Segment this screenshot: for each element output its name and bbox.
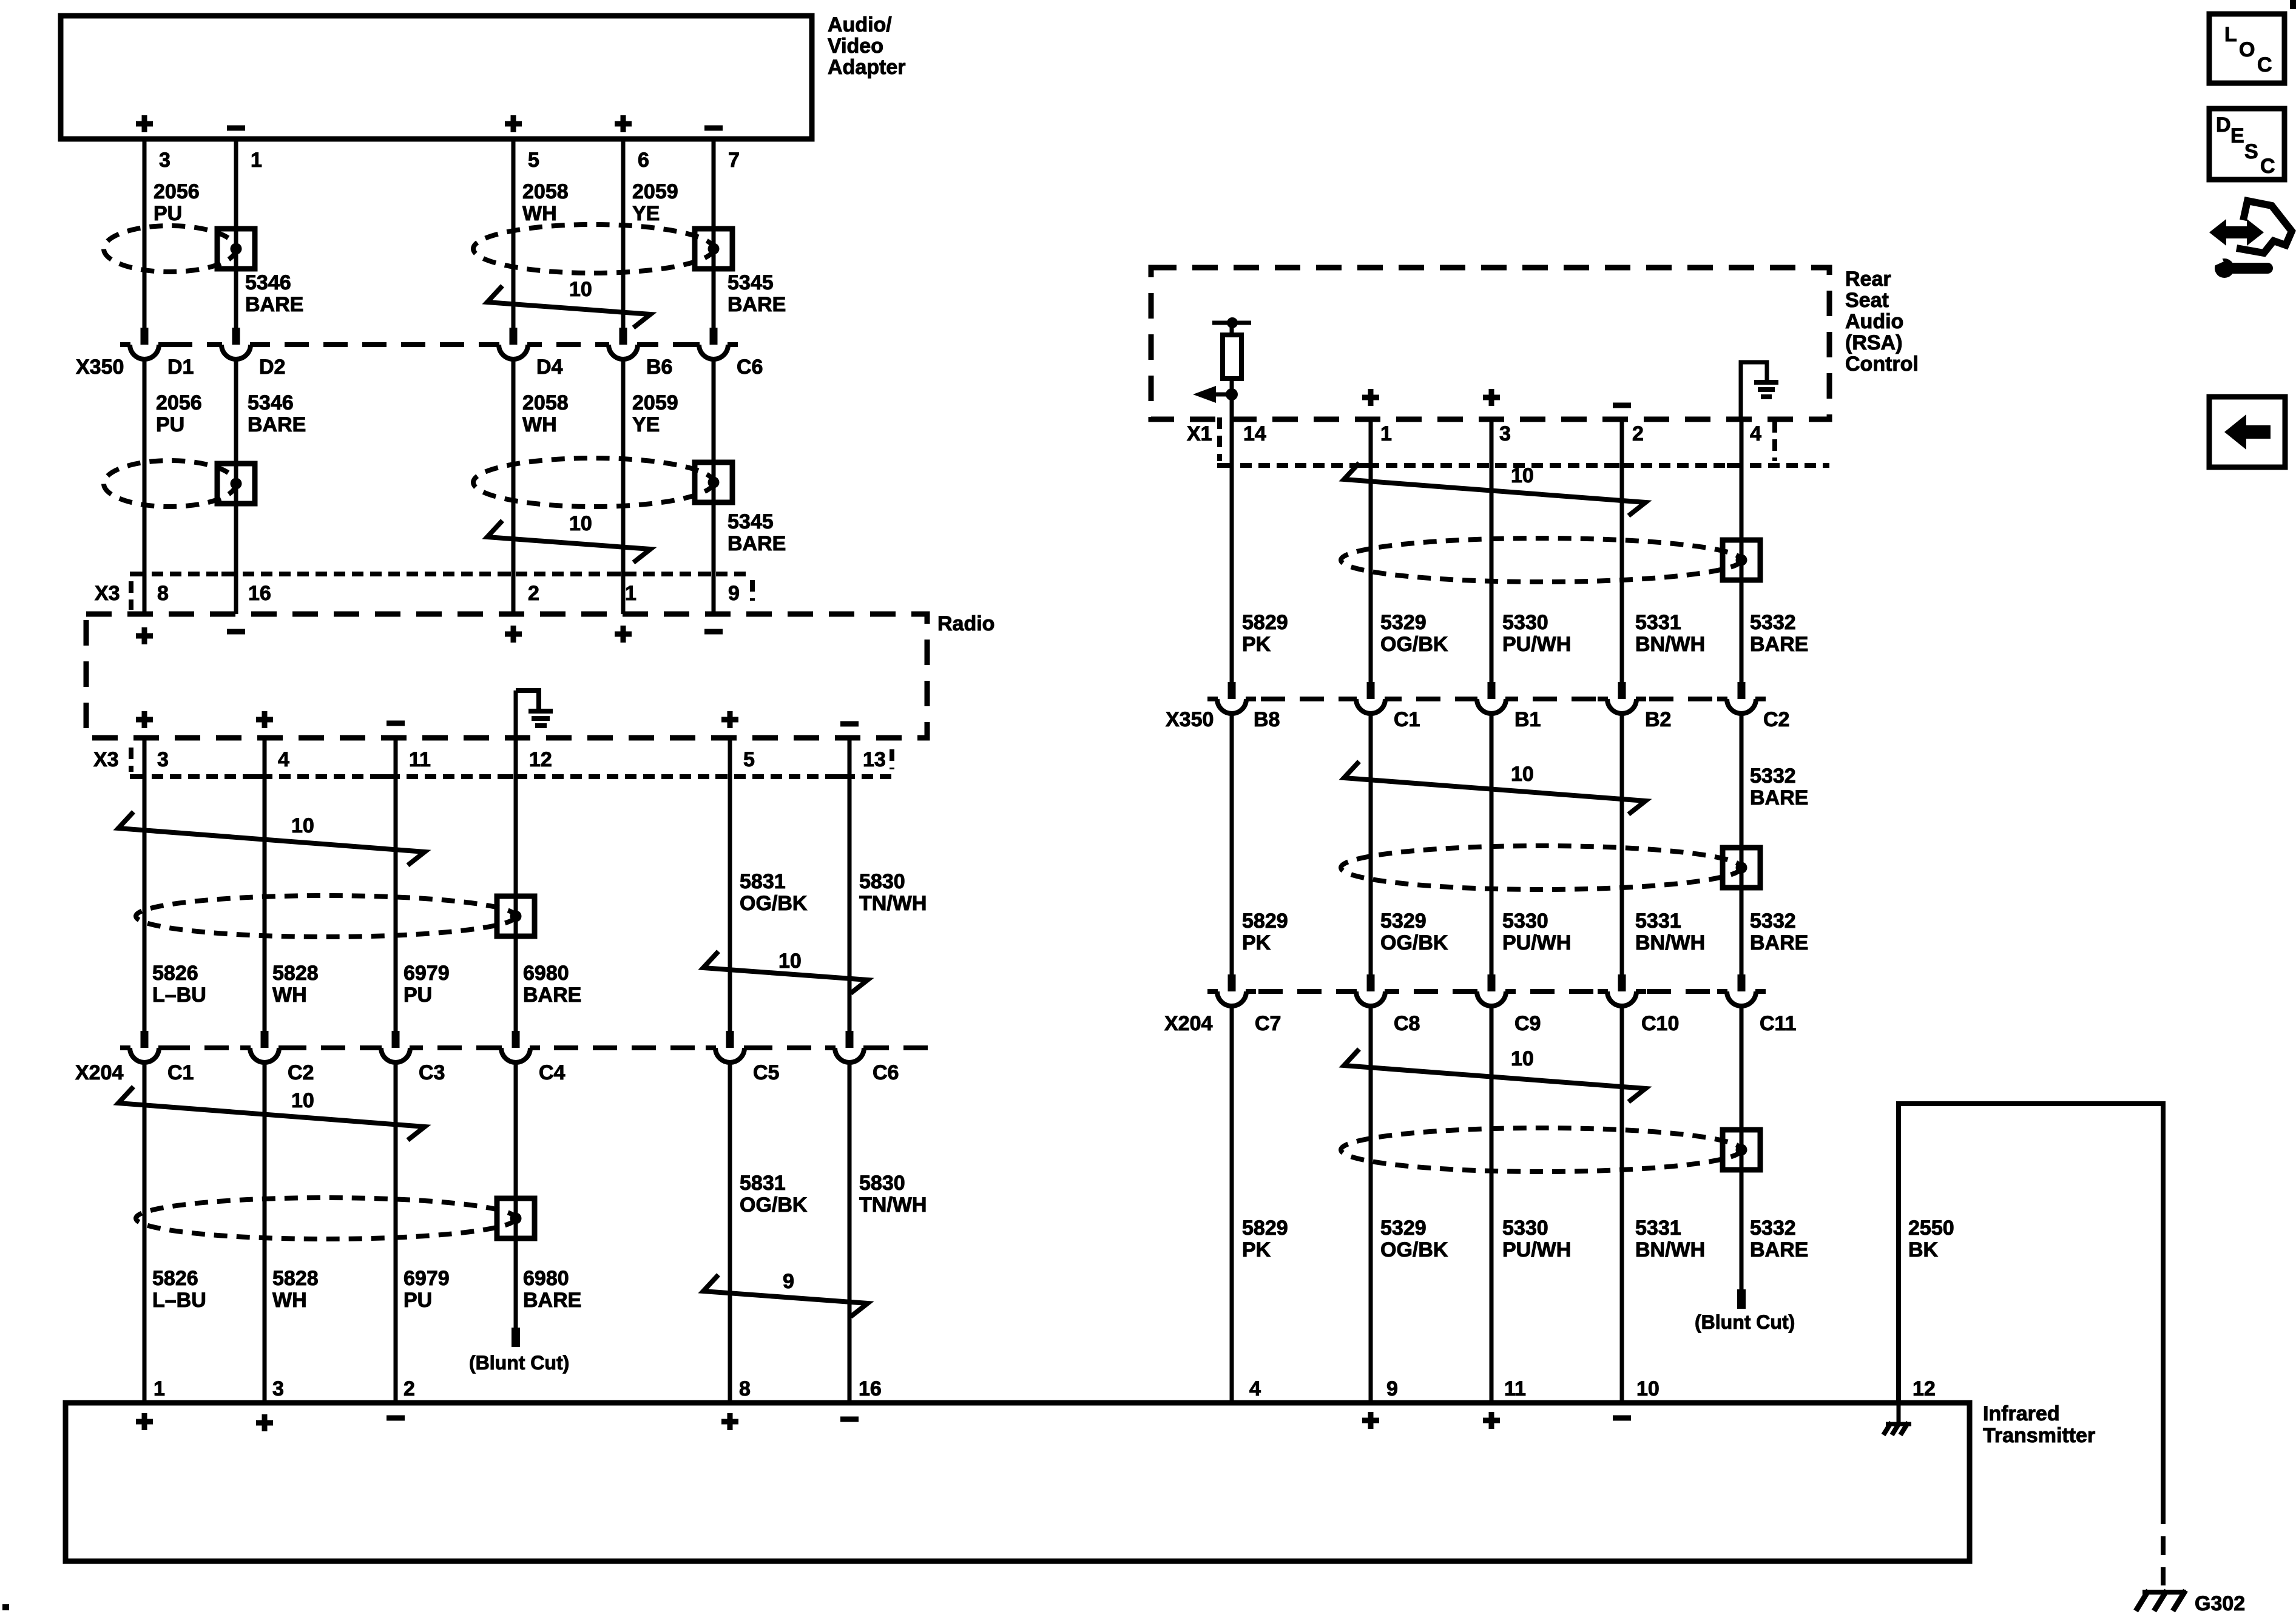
svg-text:2: 2 — [528, 582, 539, 605]
X350 terminal at x=2458 — [1477, 695, 1505, 703]
svg-text:C9: C9 — [1514, 1012, 1541, 1035]
svg-text:(Blunt Cut): (Blunt Cut) — [469, 1352, 569, 1374]
svg-text:5346: 5346 — [248, 391, 294, 414]
svg-text:1: 1 — [251, 149, 262, 172]
svg-text:BARE: BARE — [1750, 786, 1808, 809]
svg-text:2: 2 — [1632, 422, 1644, 445]
wire radio to X204 (x=1400) — [848, 738, 852, 1031]
svg-text:C1: C1 — [167, 1061, 194, 1084]
svg-text:5329: 5329 — [1380, 910, 1427, 933]
svg-text:Control: Control — [1845, 353, 1919, 376]
shield drain ellipse (2058/2059/5345 set) — [473, 224, 714, 273]
wire X204 to IR transmitter (x=850) — [514, 1062, 518, 1328]
svg-text:2059: 2059 — [632, 391, 678, 414]
svg-text:BARE: BARE — [728, 293, 786, 316]
wire radio to X204 (x=238) — [143, 738, 147, 1031]
twisted pair marker 10 row 2 — [1344, 761, 1646, 814]
svg-text:O: O — [2239, 38, 2255, 61]
svg-text:X350: X350 — [76, 356, 124, 379]
connector X350 row (D1 D2 D4 B6 C6) dashed line — [129, 342, 729, 347]
svg-text:14: 14 — [1243, 422, 1266, 445]
svg-text:C2: C2 — [1763, 708, 1789, 731]
svg-text:13: 13 — [863, 748, 886, 771]
shield drain ellipse row D — [136, 1198, 516, 1239]
svg-text:OG/BK: OG/BK — [740, 1193, 808, 1217]
svg-text:OG/BK: OG/BK — [740, 892, 808, 915]
svg-text:BARE: BARE — [245, 293, 303, 316]
wire X350 to X204 (x=2030) — [1230, 714, 1234, 974]
svg-text:C: C — [2257, 53, 2272, 76]
svg-text:3: 3 — [1499, 422, 1511, 445]
svg-text:5829: 5829 — [1242, 910, 1288, 933]
svg-text:BK: BK — [1908, 1238, 1939, 1261]
svg-text:PK: PK — [1242, 1238, 1271, 1261]
wire X204 to IR (x=2458) — [1490, 1006, 1494, 1403]
svg-text:5332: 5332 — [1750, 765, 1796, 788]
X204 terminal at x=850 — [502, 1044, 530, 1052]
X204 terminal at x=1400 — [836, 1044, 863, 1052]
svg-text:X3: X3 — [95, 582, 120, 605]
X204 terminal at x=238 — [130, 1044, 158, 1052]
svg-text:5330: 5330 — [1502, 1217, 1548, 1240]
connector X3 row 1 dashed line — [133, 572, 752, 576]
wire from AVA pin to X350 (x=846) — [512, 139, 516, 328]
component box: Audio/Video Adapter — [61, 16, 812, 139]
svg-text:5331: 5331 — [1635, 611, 1681, 634]
svg-text:7: 7 — [728, 149, 740, 172]
svg-text:B8: B8 — [1254, 708, 1280, 731]
svg-text:4: 4 — [278, 748, 289, 771]
svg-text:10: 10 — [569, 512, 592, 535]
DESC legend box — [2209, 109, 2284, 180]
svg-text:16: 16 — [248, 582, 271, 605]
svg-text:E: E — [2230, 124, 2244, 147]
svg-text:C7: C7 — [1255, 1012, 1281, 1035]
svg-text:S: S — [2244, 140, 2258, 163]
svg-text:5828: 5828 — [272, 1267, 319, 1290]
twisted pair marker 9 (5831/5830) — [703, 1275, 868, 1317]
twisted pair marker 10 (2058/2059) — [487, 286, 650, 328]
svg-text:TN/WH: TN/WH — [859, 1193, 927, 1217]
shield termination box on 6980 BARE — [497, 896, 535, 936]
svg-text:C4: C4 — [539, 1061, 566, 1084]
svg-text:5346: 5346 — [245, 271, 291, 294]
svg-text:3: 3 — [157, 748, 169, 771]
svg-text:Transmitter: Transmitter — [1983, 1424, 2095, 1447]
radio output polarity marks — [136, 711, 153, 728]
svg-text:L–BU: L–BU — [152, 1289, 206, 1312]
svg-text:12: 12 — [1913, 1377, 1936, 1400]
svg-text:5332: 5332 — [1750, 910, 1796, 933]
svg-text:C8: C8 — [1394, 1012, 1420, 1035]
svg-text:BARE: BARE — [523, 1289, 581, 1312]
wire X350 to X204 (x=2870) — [1740, 714, 1744, 974]
wire X204 to IR transmitter (x=1203) — [728, 1062, 732, 1403]
ground G302 — [2142, 1590, 2186, 1595]
AVA polarity marks — [136, 115, 153, 132]
svg-text:WH: WH — [522, 202, 557, 225]
svg-text:OG/BK: OG/BK — [1380, 1238, 1448, 1261]
svg-text:10: 10 — [1511, 464, 1534, 487]
svg-text:9: 9 — [728, 582, 740, 605]
connector X204 row (C1..C6) dashed line — [127, 1045, 937, 1050]
svg-text:6980: 6980 — [523, 962, 569, 985]
svg-text:Infrared: Infrared — [1983, 1402, 2060, 1425]
svg-text:D2: D2 — [259, 356, 285, 379]
svg-text:2: 2 — [403, 1377, 415, 1400]
wire X204 to IR (x=2259) — [1369, 1006, 1373, 1403]
shield drain ellipse 5332 row2 — [1341, 846, 1741, 890]
X204 terminal at x=2458 — [1477, 988, 1505, 995]
RSA polarity marks — [1362, 389, 1379, 406]
svg-text:5: 5 — [528, 149, 539, 172]
svg-text:BARE: BARE — [523, 984, 581, 1007]
svg-text:2058: 2058 — [522, 391, 569, 414]
resistor (RSA volume pot) — [1212, 321, 1251, 325]
wire X350 to radio X3 (x=1176) — [712, 359, 716, 614]
svg-text:C3: C3 — [419, 1061, 445, 1084]
svg-text:6979: 6979 — [403, 962, 450, 985]
svg-text:11: 11 — [409, 748, 431, 771]
svg-text:D4: D4 — [536, 356, 563, 379]
shield termination box on 5346 BARE — [217, 229, 255, 269]
svg-text:C6: C6 — [873, 1061, 899, 1084]
svg-text:4: 4 — [1750, 422, 1761, 445]
wiper arrow — [1226, 388, 1238, 400]
svg-text:X1: X1 — [1187, 422, 1212, 445]
svg-text:OG/BK: OG/BK — [1380, 633, 1448, 656]
X350 terminal at x=846 — [499, 341, 527, 348]
wire radio to X204 (x=652) — [394, 738, 398, 1031]
wire from AVA pin to X350 (x=389) — [234, 139, 238, 328]
connector X350 row (B8 C1 B1 B2 C2) dashed line — [1222, 697, 1760, 701]
svg-text:2056: 2056 — [154, 180, 200, 203]
svg-text:10: 10 — [291, 814, 314, 837]
wire from AVA pin to X350 (x=238) — [143, 139, 147, 328]
X204 terminal at x=1203 — [716, 1044, 744, 1052]
wire RSA to X350 (x=2030) — [1230, 394, 1234, 682]
svg-text:OG/BK: OG/BK — [1380, 931, 1448, 954]
shield termination box on 5346 — [217, 464, 255, 504]
svg-text:10: 10 — [1511, 1047, 1534, 1070]
svg-text:9: 9 — [1386, 1377, 1398, 1400]
svg-text:BARE: BARE — [248, 413, 306, 436]
svg-text:BN/WH: BN/WH — [1635, 633, 1705, 656]
twisted pair marker 10 row D — [118, 1087, 425, 1140]
X350 terminal at x=238 — [130, 341, 158, 348]
svg-text:5826: 5826 — [152, 962, 198, 985]
svg-text:PU/WH: PU/WH — [1502, 931, 1571, 954]
svg-text:G302: G302 — [2195, 1592, 2245, 1615]
svg-text:PK: PK — [1242, 633, 1271, 656]
X350 terminal at x=389 — [222, 341, 250, 348]
svg-text:PU/WH: PU/WH — [1502, 633, 1571, 656]
svg-text:6979: 6979 — [403, 1267, 450, 1290]
svg-text:5331: 5331 — [1635, 910, 1681, 933]
IR polarity marks — [136, 1413, 153, 1430]
wire RSA to X350 (x=2870) — [1740, 419, 1744, 682]
wire RSA to X350 (x=2673) — [1620, 419, 1624, 682]
svg-text:5831: 5831 — [740, 870, 786, 893]
svg-text:PU/WH: PU/WH — [1502, 1238, 1571, 1261]
X350 terminal at x=1027 — [609, 341, 637, 348]
svg-text:5329: 5329 — [1380, 611, 1427, 634]
svg-text:WH: WH — [272, 1289, 307, 1312]
svg-text:YE: YE — [632, 202, 660, 225]
shield termination box on 5332 BARE — [1723, 540, 1760, 580]
RSA internal ground (pin 4) — [1741, 362, 1767, 419]
shield drain ellipse 5332 — [1341, 538, 1741, 582]
svg-text:B1: B1 — [1514, 708, 1541, 731]
svg-text:WH: WH — [522, 413, 557, 436]
svg-text:9: 9 — [783, 1270, 794, 1293]
svg-text:X204: X204 — [75, 1061, 123, 1084]
svg-text:1: 1 — [1380, 422, 1392, 445]
shield drain ellipse 5332 row3 — [1341, 1128, 1741, 1172]
X204 terminal at x=2673 — [1608, 988, 1636, 995]
svg-text:C2: C2 — [288, 1061, 314, 1084]
svg-text:C1: C1 — [1394, 708, 1420, 731]
wire RSA to X350 (x=2259) — [1369, 419, 1373, 682]
wire 2550 BK to G302 — [1899, 1104, 2163, 1505]
svg-text:C10: C10 — [1641, 1012, 1679, 1035]
svg-text:BN/WH: BN/WH — [1635, 931, 1705, 954]
X204 terminal at x=2030 — [1218, 988, 1246, 995]
wire radio to X204 (x=436) — [263, 738, 267, 1031]
X204 terminal at x=652 — [382, 1044, 410, 1052]
wire X204 to IR transmitter (x=1400) — [848, 1062, 852, 1403]
wire radio to X204 (x=850) — [514, 690, 518, 1031]
LOC legend box — [2209, 14, 2284, 83]
svg-text:Radio: Radio — [937, 612, 994, 635]
svg-text:BN/WH: BN/WH — [1635, 1238, 1705, 1261]
svg-text:5826: 5826 — [152, 1267, 198, 1290]
svg-text:Seat: Seat — [1845, 289, 1889, 312]
shield termination box on 5332 BARE — [1723, 1130, 1760, 1170]
svg-text:2058: 2058 — [522, 180, 569, 203]
svg-text:PU: PU — [403, 1289, 432, 1312]
svg-text:4: 4 — [1249, 1377, 1261, 1400]
blunt cut stub 6980 — [512, 1328, 520, 1347]
svg-text:X204: X204 — [1164, 1012, 1212, 1035]
svg-text:5345: 5345 — [728, 510, 774, 533]
svg-text:6: 6 — [638, 149, 649, 172]
svg-text:16: 16 — [859, 1377, 882, 1400]
svg-text:8: 8 — [157, 582, 169, 605]
svg-text:WH: WH — [272, 984, 307, 1007]
X204 terminal at x=2870 — [1727, 988, 1755, 995]
svg-text:8: 8 — [739, 1377, 751, 1400]
wire X204 to IR transmitter (x=652) — [394, 1062, 398, 1403]
svg-text:C11: C11 — [1760, 1012, 1797, 1035]
svg-text:10: 10 — [291, 1089, 314, 1112]
svg-text:C: C — [2260, 155, 2275, 178]
wire X204 to IR (x=2030) — [1230, 1006, 1234, 1403]
svg-text:5831: 5831 — [740, 1172, 786, 1195]
radio input polarity marks — [136, 627, 153, 644]
svg-text:PU: PU — [156, 413, 184, 436]
twisted pair marker 10 (5826/5828/6979) — [118, 812, 425, 865]
svg-text:2550: 2550 — [1908, 1217, 1954, 1240]
svg-text:(RSA): (RSA) — [1845, 331, 1902, 354]
shield drain ellipse row B left — [104, 461, 236, 507]
wire RSA to X350 (x=2458) — [1490, 419, 1494, 682]
svg-text:Adapter: Adapter — [828, 56, 905, 79]
IR internal ground at pin 12 — [1897, 1403, 1901, 1423]
svg-text:C5: C5 — [753, 1061, 779, 1084]
X204 terminal at x=436 — [251, 1044, 279, 1052]
wire X204 to IR transmitter (x=436) — [263, 1062, 267, 1403]
svg-text:L–BU: L–BU — [152, 984, 206, 1007]
svg-text:5332: 5332 — [1750, 1217, 1796, 1240]
svg-text:1: 1 — [625, 582, 636, 605]
connector X204 row (C7..C11) dashed line — [1220, 989, 1760, 994]
wire from AVA pin to X350 (x=1027) — [621, 139, 626, 328]
svg-text:5330: 5330 — [1502, 611, 1548, 634]
svg-text:10: 10 — [778, 950, 802, 973]
svg-text:5330: 5330 — [1502, 910, 1548, 933]
svg-text:(Blunt Cut): (Blunt Cut) — [1695, 1311, 1795, 1333]
svg-text:BARE: BARE — [728, 532, 786, 555]
wire X350 to X204 (x=2458) — [1490, 714, 1494, 974]
svg-text:PU: PU — [403, 984, 432, 1007]
shield termination box on 5332 BARE — [1723, 848, 1760, 888]
svg-text:5329: 5329 — [1380, 1217, 1427, 1240]
svg-text:BARE: BARE — [1750, 633, 1808, 656]
radio internal ground at pin 12 — [516, 690, 539, 709]
shield termination box on 5345 BARE — [695, 229, 732, 269]
svg-text:11: 11 — [1504, 1377, 1526, 1400]
X350 terminal at x=2259 — [1357, 695, 1385, 703]
component box: Rear Seat Audio (RSA) Control (dashed) — [1151, 268, 1829, 419]
svg-text:2059: 2059 — [632, 180, 678, 203]
svg-text:5829: 5829 — [1242, 1217, 1288, 1240]
shield drain ellipse (2056/5346 pair) — [104, 226, 236, 272]
connector X1 row dashed line — [1222, 463, 1829, 468]
svg-text:Audio: Audio — [1845, 310, 1903, 333]
twisted pair marker 10 row 3 — [1344, 1049, 1646, 1102]
svg-text:D1: D1 — [167, 356, 194, 379]
connector X3 row 2 dashed line — [133, 774, 895, 779]
back-arrow legend box — [2209, 397, 2285, 467]
svg-text:2056: 2056 — [156, 391, 202, 414]
wire X350 to radio X3 (x=1027) — [621, 359, 626, 614]
page corner mark top right — [2290, 0, 2296, 9]
X350 terminal at x=1176 — [700, 341, 728, 348]
svg-text:TN/WH: TN/WH — [859, 892, 927, 915]
svg-text:X3: X3 — [93, 748, 119, 771]
wire X204 to IR (x=2870) — [1740, 1006, 1744, 1289]
svg-text:10: 10 — [1511, 763, 1534, 786]
svg-text:5: 5 — [743, 748, 755, 771]
svg-text:5332: 5332 — [1750, 611, 1796, 634]
wire X350 to radio X3 (x=389) — [234, 359, 238, 614]
svg-text:PU: PU — [154, 202, 182, 225]
svg-text:Audio/: Audio/ — [828, 13, 892, 36]
svg-text:10: 10 — [569, 278, 592, 301]
X350 terminal at x=2030 — [1218, 695, 1246, 703]
svg-text:5829: 5829 — [1242, 611, 1288, 634]
X204 terminal at x=2259 — [1357, 988, 1385, 995]
svg-text:10: 10 — [1636, 1377, 1660, 1400]
X350 terminal at x=2673 — [1608, 695, 1636, 703]
wire X350 to radio X3 (x=238) — [143, 359, 147, 614]
svg-text:BARE: BARE — [1750, 1238, 1808, 1261]
svg-text:B2: B2 — [1645, 708, 1671, 731]
svg-text:5345: 5345 — [728, 271, 774, 294]
svg-text:3: 3 — [272, 1377, 284, 1400]
svg-text:1: 1 — [154, 1377, 165, 1400]
component box: Infrared Transmitter — [66, 1403, 1970, 1561]
svg-text:5830: 5830 — [859, 1172, 905, 1195]
svg-text:B6: B6 — [646, 356, 672, 379]
connector test / wrench icon — [2237, 201, 2292, 253]
svg-text:Rear: Rear — [1845, 268, 1891, 291]
X350 terminal at x=2870 — [1727, 695, 1755, 703]
wire X204 to IR (x=2673) — [1620, 1006, 1624, 1403]
svg-text:PK: PK — [1242, 931, 1271, 954]
wire radio to X204 (x=1203) — [728, 738, 732, 1031]
svg-text:YE: YE — [632, 413, 660, 436]
svg-text:BARE: BARE — [1750, 931, 1808, 954]
svg-text:6980: 6980 — [523, 1267, 569, 1290]
twisted pair marker 10 (5329/5331) — [1344, 463, 1646, 516]
wire X204 to IR transmitter (x=238) — [143, 1062, 147, 1403]
twisted pair marker 10 (5831/5830) — [703, 951, 868, 993]
wire X350 to radio X3 (x=846) — [512, 359, 516, 614]
svg-text:Video: Video — [828, 35, 883, 58]
svg-text:C6: C6 — [737, 356, 763, 379]
svg-text:L: L — [2224, 23, 2237, 46]
svg-text:3: 3 — [159, 149, 171, 172]
blunt cut stub 5332 — [1737, 1289, 1746, 1309]
svg-text:D: D — [2216, 113, 2231, 137]
twisted pair marker 10 row B — [487, 521, 650, 562]
svg-text:5828: 5828 — [272, 962, 319, 985]
shield drain ellipse (6980 set) — [136, 896, 516, 937]
shield termination box on 6980 BARE — [497, 1198, 535, 1238]
page corner mark bottom left — [2, 1604, 9, 1610]
wire from AVA pin to X350 (x=1176) — [712, 139, 716, 328]
wire X350 to X204 (x=2673) — [1620, 714, 1624, 974]
svg-text:X350: X350 — [1166, 708, 1214, 731]
svg-text:12: 12 — [529, 748, 552, 771]
svg-text:5331: 5331 — [1635, 1217, 1681, 1240]
component box: Radio (dashed) — [86, 614, 927, 738]
svg-text:5830: 5830 — [859, 870, 905, 893]
wire X350 to X204 (x=2259) — [1369, 714, 1373, 974]
shield drain ellipse row B right — [473, 458, 714, 507]
shield termination box on 5345 — [695, 462, 732, 502]
